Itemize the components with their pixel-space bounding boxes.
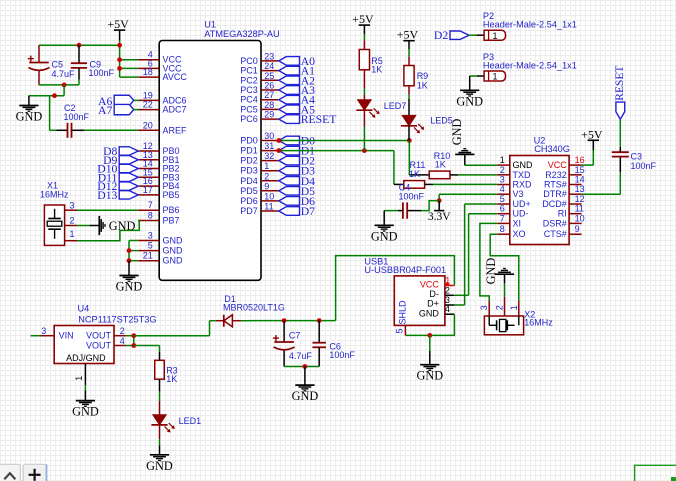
wire <box>408 141 410 175</box>
junction <box>131 333 136 338</box>
svg-text:+5V: +5V <box>107 17 129 31</box>
svg-text:XO: XO <box>513 229 526 239</box>
wire <box>421 201 439 211</box>
svg-text:VCC: VCC <box>420 279 440 289</box>
U1 pin 9 PD5 <box>240 181 279 196</box>
op-amp U2 CH340G body <box>510 135 570 244</box>
U2 pin 6 UD- <box>497 204 528 219</box>
svg-text:4.7uF: 4.7uF <box>52 69 76 79</box>
resistor R5 <box>359 40 383 74</box>
svg-text:RXD: RXD <box>513 180 533 190</box>
U1 pin 29 PC6 <box>240 110 279 125</box>
svg-text:22: 22 <box>143 100 153 110</box>
wire <box>63 85 65 96</box>
U2 pin 10 DSR# <box>543 213 585 228</box>
U1 pin 26 PC3 <box>240 81 279 96</box>
junction <box>282 318 287 323</box>
svg-text:9: 9 <box>575 224 580 234</box>
svg-text:27: 27 <box>264 90 274 100</box>
UI button zoom-in <box>23 464 46 481</box>
svg-text:7: 7 <box>500 213 505 223</box>
ground <box>72 390 99 418</box>
diode D1 MBR0520LT1G <box>216 294 285 327</box>
U1 pin 19 ADC6 <box>138 90 186 105</box>
U1 pin 21 GND <box>138 251 183 266</box>
LED LED5 <box>401 115 453 133</box>
svg-text:DCD#: DCD# <box>542 199 567 209</box>
svg-text:PC6: PC6 <box>240 114 258 124</box>
svg-text:GND: GND <box>116 280 143 294</box>
ground <box>450 119 474 166</box>
wire <box>450 174 497 176</box>
ground <box>116 261 143 294</box>
junction <box>276 148 281 153</box>
svg-text:11: 11 <box>264 202 273 212</box>
svg-text:17: 17 <box>143 185 153 195</box>
net flag D9 <box>103 154 138 167</box>
U2 pin 8 XO <box>497 224 525 239</box>
wire USB GND <box>405 314 454 335</box>
junction <box>52 93 57 98</box>
svg-text:23: 23 <box>264 51 274 61</box>
wire <box>439 194 497 200</box>
junction <box>62 83 67 88</box>
USB1 pin 1 VCC <box>420 275 455 289</box>
svg-text:8: 8 <box>148 211 153 221</box>
U2 pin 13 DTR# <box>543 184 584 199</box>
wire <box>134 321 216 336</box>
svg-text:GND: GND <box>163 246 184 256</box>
svg-text:CH340G: CH340G <box>534 144 570 154</box>
wire USB VCC <box>336 256 455 321</box>
resistor R10 <box>409 151 450 179</box>
wire <box>465 164 498 166</box>
svg-text:5: 5 <box>148 241 153 251</box>
junction <box>407 138 412 143</box>
svg-text:10: 10 <box>575 213 585 223</box>
crystal X1 <box>40 181 69 246</box>
svg-text:SHLD: SHLD <box>397 300 407 325</box>
svg-text:U4: U4 <box>78 304 90 314</box>
power flag +5V <box>397 28 419 49</box>
svg-text:GND: GND <box>419 309 440 319</box>
svg-text:4.7uF: 4.7uF <box>289 351 313 361</box>
junction <box>437 198 442 203</box>
junction <box>117 57 122 62</box>
svg-text:NCP1117ST25T3G: NCP1117ST25T3G <box>78 314 156 324</box>
svg-text:1: 1 <box>445 275 450 285</box>
ground <box>371 211 398 244</box>
svg-text:C3: C3 <box>631 152 643 162</box>
wire <box>49 96 51 131</box>
ground <box>292 367 319 404</box>
svg-text:3.3V: 3.3V <box>428 211 451 223</box>
net flag D5 <box>279 185 315 198</box>
wire XTAL2 <box>77 221 139 241</box>
junction <box>127 248 132 253</box>
USB1 pin 4 GND <box>419 304 455 318</box>
svg-text:PD2: PD2 <box>240 156 258 166</box>
wire XTAL1 <box>77 209 138 211</box>
junction <box>276 138 281 143</box>
wire <box>129 240 138 242</box>
power flag +5V (main rail) <box>107 17 129 40</box>
svg-text:RESET: RESET <box>614 66 626 101</box>
svg-text:9: 9 <box>264 181 269 191</box>
svg-text:Header-Male-2.54_1x1: Header-Male-2.54_1x1 <box>483 20 577 30</box>
svg-text:Header-Male-2.54_1x1: Header-Male-2.54_1x1 <box>483 60 577 70</box>
U1 pin 10 PD6 <box>240 191 279 206</box>
junction <box>362 148 367 153</box>
svg-text:29: 29 <box>264 110 274 120</box>
X1 pin 3 <box>65 200 77 210</box>
svg-text:4: 4 <box>445 304 450 314</box>
svg-text:2: 2 <box>500 165 505 175</box>
U1 pin 27 PC4 <box>240 90 279 105</box>
net flag A7 <box>98 104 139 117</box>
U4 pin 1 ADJ/GND <box>66 353 106 385</box>
svg-text:3: 3 <box>41 326 46 336</box>
junction <box>427 333 432 338</box>
U1 pin 13 PB1 <box>138 150 179 165</box>
wire <box>50 129 57 131</box>
net flag D3 <box>279 165 315 178</box>
svg-text:PB7: PB7 <box>163 216 180 226</box>
wire <box>470 75 477 77</box>
U1 pin 7 PB6 <box>138 200 179 215</box>
wire <box>582 172 621 194</box>
svg-text:20: 20 <box>143 120 153 130</box>
wire <box>31 335 41 337</box>
LED LED7 <box>356 100 406 118</box>
U1 pin 5 GND <box>138 241 183 256</box>
U1 pin 8 PB7 <box>138 211 179 226</box>
X1 pin 2 <box>65 215 77 225</box>
wire <box>619 119 621 147</box>
svg-text:1: 1 <box>264 161 269 171</box>
svg-text:GND: GND <box>72 405 99 419</box>
op-amp U1 ATMEGA328P-AU body <box>159 20 280 281</box>
U1 pin 25 PC2 <box>240 71 279 86</box>
wire <box>119 41 121 46</box>
net flag D8 <box>103 145 138 158</box>
svg-text:DTR#: DTR# <box>543 189 567 199</box>
U1 pin 14 PB2 <box>138 159 179 174</box>
svg-text:PD1: PD1 <box>240 146 258 156</box>
U4 pin 3 VIN <box>41 326 74 341</box>
svg-text:PD5: PD5 <box>240 186 258 196</box>
wire <box>159 425 161 446</box>
net flag A6 <box>98 95 139 108</box>
svg-text:28: 28 <box>264 100 274 110</box>
U2 pin 2 TXD <box>497 165 531 180</box>
wire D0 <box>279 140 410 142</box>
X2 pin 3 <box>479 301 489 316</box>
U1 pin 2 PD4 <box>240 171 279 186</box>
svg-text:5: 5 <box>500 194 505 204</box>
U4 pin 2 VOUT <box>86 326 126 341</box>
svg-text:16MHz: 16MHz <box>40 190 69 200</box>
wire <box>284 366 319 368</box>
net flag RESET <box>279 113 337 126</box>
svg-text:GND: GND <box>292 389 319 403</box>
svg-text:3: 3 <box>69 200 74 210</box>
svg-text:21: 21 <box>143 251 153 261</box>
power flag 3.3V <box>428 201 451 223</box>
connector P3 <box>477 52 577 81</box>
junction <box>117 43 122 48</box>
svg-text:CTS#: CTS# <box>544 229 567 239</box>
U1 pin 17 PB5 <box>138 185 179 200</box>
svg-text:PC3: PC3 <box>240 85 258 95</box>
connector P2 <box>477 11 577 41</box>
net flag D4 <box>279 175 315 188</box>
wire <box>408 49 410 57</box>
svg-text:5: 5 <box>394 328 404 333</box>
wire <box>363 70 365 100</box>
capacitor C6 <box>312 321 355 367</box>
resistor R11 <box>394 160 425 188</box>
net flag D1 <box>279 145 315 158</box>
svg-text:LED7: LED7 <box>384 101 407 111</box>
U2 pin 9 CTS# <box>544 224 582 239</box>
ground <box>456 76 483 108</box>
svg-text:PB6: PB6 <box>163 205 180 215</box>
svg-text:ATMEGA328P-AU: ATMEGA328P-AU <box>204 29 279 39</box>
wire <box>120 76 139 78</box>
U1 pin 31 PD1 <box>240 141 279 156</box>
U2 pin 11 RI <box>558 204 584 219</box>
svg-text:PC5: PC5 <box>240 104 258 114</box>
svg-text:100nF: 100nF <box>64 112 90 122</box>
svg-text:GND: GND <box>513 160 534 170</box>
svg-text:2: 2 <box>69 215 74 225</box>
svg-text:13: 13 <box>575 184 585 194</box>
U1 pin 30 PD0 <box>240 131 279 146</box>
svg-text:32: 32 <box>264 151 274 161</box>
power flag +5V <box>352 12 374 34</box>
UI button pan <box>0 464 20 481</box>
svg-text:U-USBBR04P-F001: U-USBBR04P-F001 <box>364 265 446 275</box>
crystal X2 <box>484 309 553 335</box>
wire <box>241 320 336 322</box>
wire <box>363 110 365 150</box>
svg-text:1: 1 <box>493 72 498 82</box>
ground flag at X1 pin2 <box>77 216 136 235</box>
svg-text:2: 2 <box>445 285 450 295</box>
net flag D2 <box>279 155 315 168</box>
capacitor C2 <box>57 103 90 138</box>
svg-text:3: 3 <box>500 175 505 185</box>
wire UD+ <box>454 204 497 305</box>
ground <box>484 258 514 285</box>
svg-text:8: 8 <box>500 224 505 234</box>
net flag D2 <box>434 29 469 42</box>
svg-text:D+: D+ <box>427 299 439 309</box>
wire <box>504 283 506 296</box>
U1 pin 6 VCC <box>138 58 182 73</box>
power flag +5V <box>581 127 603 150</box>
svg-text:D-: D- <box>429 289 439 299</box>
U4 pin 4 VOUT <box>86 336 126 351</box>
svg-text:XI: XI <box>513 218 522 228</box>
svg-text:1K: 1K <box>417 81 428 91</box>
svg-text:UD-: UD- <box>513 209 529 219</box>
svg-text:6: 6 <box>500 204 505 214</box>
svg-text:V3: V3 <box>513 189 524 199</box>
svg-text:24: 24 <box>264 61 274 71</box>
svg-text:PD7: PD7 <box>240 206 258 216</box>
wire <box>384 210 398 212</box>
svg-text:PD4: PD4 <box>240 176 258 186</box>
svg-text:D13: D13 <box>97 189 117 202</box>
svg-text:12: 12 <box>575 194 585 204</box>
svg-text:AREF: AREF <box>163 125 188 135</box>
junction <box>303 364 308 369</box>
svg-text:PD3: PD3 <box>240 166 258 176</box>
wire <box>120 59 139 61</box>
U2 pin 5 UD+ <box>497 194 530 209</box>
svg-text:GND: GND <box>456 94 483 108</box>
svg-text:GND: GND <box>163 256 184 266</box>
svg-text:GND: GND <box>484 258 498 285</box>
svg-text:16: 16 <box>575 155 585 165</box>
capacitor C3 <box>612 147 657 172</box>
wire <box>120 67 139 69</box>
svg-text:PB5: PB5 <box>163 190 180 200</box>
svg-text:ADJ/GND: ADJ/GND <box>66 353 106 363</box>
svg-text:4: 4 <box>120 336 125 346</box>
wire <box>393 151 395 185</box>
svg-text:1: 1 <box>69 229 74 239</box>
svg-text:1: 1 <box>493 31 498 41</box>
junction <box>131 343 136 348</box>
ground <box>416 335 443 382</box>
svg-text:RTS#: RTS# <box>544 180 567 190</box>
U1 pin 32 PD2 <box>240 151 279 166</box>
svg-text:VCC: VCC <box>548 160 568 170</box>
U1 pin 23 PC0 <box>240 51 279 66</box>
net flag A5 <box>279 103 315 116</box>
net flag D7 <box>279 205 315 218</box>
svg-text:16MHz: 16MHz <box>524 317 553 327</box>
net flag D10 <box>97 163 138 176</box>
LED LED1 <box>151 401 201 433</box>
wire <box>84 385 86 390</box>
svg-text:14: 14 <box>575 175 585 185</box>
wire <box>469 34 477 36</box>
svg-text:PC0: PC0 <box>240 56 258 66</box>
wire <box>363 34 365 40</box>
junction <box>77 43 82 48</box>
op-amp U4 NCP1117ST25T3G body <box>54 304 156 364</box>
svg-text:1K: 1K <box>166 374 177 384</box>
U1 pin 12 PB0 <box>138 141 179 156</box>
svg-text:RI: RI <box>558 209 567 219</box>
svg-text:100nF: 100nF <box>329 350 355 360</box>
svg-text:2: 2 <box>264 171 269 181</box>
svg-text:MBR0520LT1G: MBR0520LT1G <box>223 302 285 312</box>
net flag A4 <box>279 94 315 107</box>
net flag A0 <box>279 55 315 68</box>
net flag D11 <box>98 171 139 184</box>
svg-text:15: 15 <box>575 165 585 175</box>
svg-text:GND: GND <box>450 119 464 146</box>
junction <box>317 318 322 323</box>
wire <box>39 84 79 86</box>
wire UD- <box>454 214 497 296</box>
svg-text:100nF: 100nF <box>631 161 657 171</box>
wire AREF <box>84 129 138 131</box>
USB1 pin 5 SHLD <box>394 300 407 335</box>
svg-text:VOUT: VOUT <box>86 341 112 351</box>
X2 pin 2 <box>495 297 505 316</box>
svg-text:PD6: PD6 <box>240 196 258 206</box>
U1 pin 3 GND <box>138 231 183 246</box>
svg-text:1K: 1K <box>371 65 382 75</box>
svg-text:2: 2 <box>495 305 505 310</box>
svg-text:4: 4 <box>500 184 505 194</box>
connector USB1 body <box>364 256 446 325</box>
svg-text:C5: C5 <box>52 60 64 70</box>
junction <box>117 66 122 71</box>
svg-text:+5V: +5V <box>352 12 374 26</box>
net flag RESET <box>614 66 626 120</box>
wire <box>408 126 410 141</box>
svg-text:LED1: LED1 <box>179 416 202 426</box>
wire XO <box>490 234 519 301</box>
U1 pin 1 PD3 <box>240 161 279 176</box>
U1 pin 16 PB4 <box>138 176 179 191</box>
wire <box>29 95 64 97</box>
svg-text:PC4: PC4 <box>240 95 258 105</box>
svg-text:2: 2 <box>120 326 125 336</box>
U2 pin 16 VCC <box>548 155 585 170</box>
resistor R9 <box>404 57 428 91</box>
wire <box>134 346 160 353</box>
svg-text:TXD: TXD <box>513 170 532 180</box>
svg-text:+5V: +5V <box>581 127 603 141</box>
U1 pin 18 AVCC <box>138 67 187 82</box>
svg-text:GND: GND <box>146 459 173 473</box>
X2 pin 1 <box>509 301 519 316</box>
U2 pin 7 XI <box>497 213 521 228</box>
USB1 pin 2 D- <box>429 285 454 299</box>
svg-text:A7: A7 <box>98 104 112 117</box>
net flag D13 <box>97 189 138 202</box>
net flag D12 <box>97 180 138 193</box>
X1 pin 1 <box>65 229 77 241</box>
svg-text:18: 18 <box>143 67 153 77</box>
U1 pin 24 PC1 <box>240 61 279 76</box>
svg-text:PC2: PC2 <box>240 75 258 85</box>
net flag D6 <box>279 195 315 208</box>
svg-text:1: 1 <box>509 305 519 310</box>
wire <box>39 44 120 46</box>
wire D1 <box>279 150 394 152</box>
net flag A2 <box>279 74 315 87</box>
svg-text:R232: R232 <box>545 170 567 180</box>
svg-text:R9: R9 <box>417 71 429 81</box>
svg-text:VIN: VIN <box>59 331 74 341</box>
svg-text:ADC7: ADC7 <box>163 105 187 115</box>
svg-text:AVCC: AVCC <box>163 72 188 82</box>
ground <box>16 96 43 124</box>
svg-text:GND: GND <box>16 110 43 124</box>
U2 pin 1 GND <box>497 155 533 170</box>
wire <box>408 86 410 116</box>
U1 pin 11 PD7 <box>240 202 279 217</box>
